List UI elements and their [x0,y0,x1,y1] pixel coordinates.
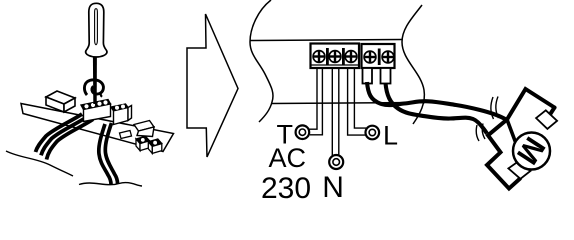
rotation curl around shaft [84,80,103,95]
small cube 1 with screw [136,136,150,150]
cable A to motor [367,82,506,120]
small cube 2 with screw [148,139,162,153]
terminal box bottom [508,162,530,179]
screwdriver handle inner line [95,9,98,45]
screwdriver handle [86,3,107,57]
left connector box on strip [46,91,75,112]
separator bars [326,48,329,65]
ring terminal N [329,155,343,169]
strain marks on cable B [476,124,485,142]
wall band top line [251,40,403,41]
terminal strip base (isometric rail) [21,104,174,152]
screw 4 [364,51,376,63]
cable pair middle (2 cables) [99,123,118,185]
strain marks on cable A [491,97,499,120]
motor housing visible edges [487,89,555,189]
wire to L [348,68,366,135]
svg-text:N: N [322,171,344,200]
screw 2 [329,51,341,63]
ring terminal T [296,125,310,139]
curl tail [101,92,102,97]
separator bar [378,49,381,66]
screw 1 [313,51,325,63]
terminal block TB1 (3-pole) [311,44,360,69]
ground wavy line left [6,151,73,176]
screw 5 [382,51,394,63]
cable B to motor [386,83,488,134]
motor housing silhouette (white) [487,89,555,189]
wire to T [308,68,317,129]
wire to N [331,68,333,156]
terminal box top [536,110,557,129]
terminal block TB2 (2-pole) [362,44,395,68]
wire clamp wedge (white box) [134,121,154,137]
ring terminal L [366,126,380,140]
terminal block 1 (black top, screws) [81,100,111,122]
svg-text:230: 230 [261,172,311,200]
wall band left torn edge [250,0,273,122]
small tab on strip [120,131,132,139]
ground wavy line middle [79,183,142,186]
cable clamp 1 below TB2 [363,68,373,84]
svg-text:L: L [383,121,398,151]
terminal block 2 (black top, screws) [111,104,132,125]
screwdriver shaft [93,56,97,104]
cable bundle left (3 cables) [36,114,94,160]
wall band bottom line [272,103,425,104]
svg-text:AC: AC [269,143,307,173]
wires from terminal block TB1 [308,68,366,156]
screw 3 [345,51,357,63]
internal housing edge [507,120,518,148]
wall band right torn edge [402,5,424,124]
motor circle M [513,133,550,170]
cable clamp 2 below TB2 [381,68,391,84]
